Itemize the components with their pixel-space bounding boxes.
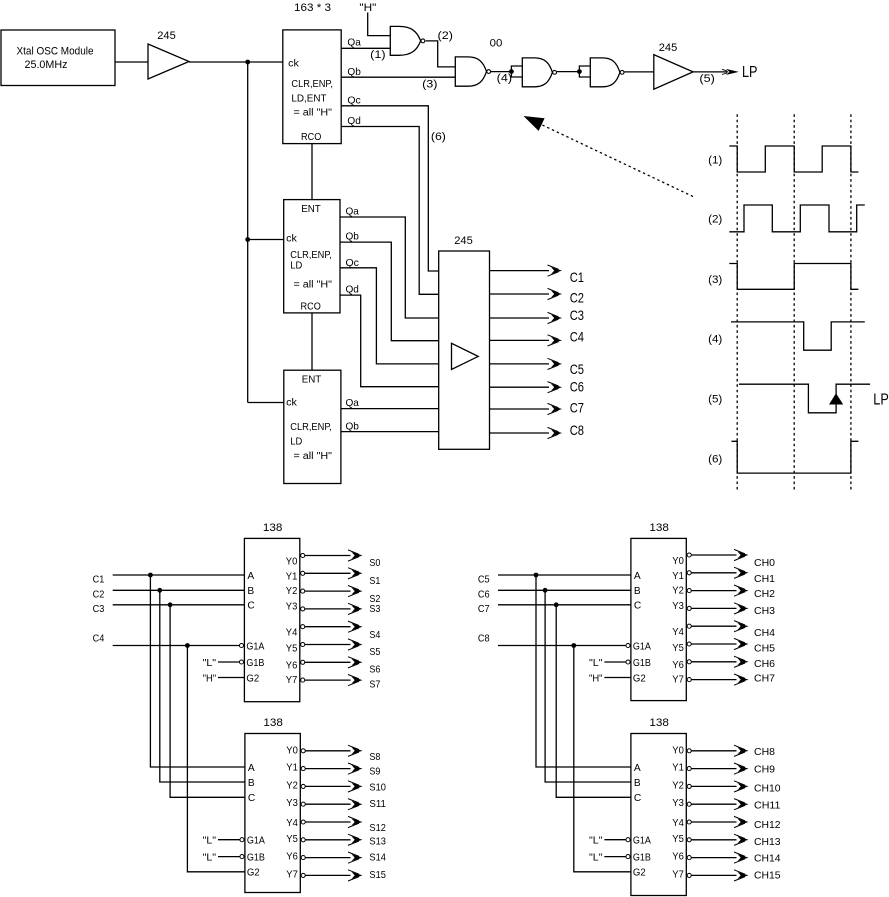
svg-text:CLR,ENP,: CLR,ENP, [291,79,333,90]
wire U6 output C7 [490,408,550,410]
wire C3 vertical to lower decoder [170,605,245,798]
svg-text:S13: S13 [369,836,386,847]
wire BR Y1 [692,768,737,770]
svg-text:A: A [247,571,254,582]
decoder TL input G1A [239,643,243,647]
wire BL Y0 [306,750,351,752]
wire C5 vertical to lower decoder [536,575,631,767]
svg-text:(3): (3) [708,274,722,286]
wire C7 [498,604,631,606]
svg-text:B: B [634,778,641,789]
nand G1 [390,26,420,55]
svg-text:B: B [634,586,641,597]
wire trunk to counter2 ck [248,239,284,241]
oscillator module X1 [1,30,115,86]
svg-text:LD: LD [290,437,302,448]
decoder BL input G1A [240,838,244,842]
wire counter2 Qc [340,268,439,364]
wire BR Y4 [692,821,737,823]
svg-text:Y2: Y2 [286,780,298,791]
node junction net4 [509,69,514,74]
decoder BL input G1B [240,855,244,859]
svg-text:(5): (5) [708,394,722,406]
svg-text:S12: S12 [369,823,386,834]
wire C4 vertical to lower decoder [187,646,245,872]
timing grid dotted line t2 [793,114,795,492]
wire U6 output C4 [490,339,550,341]
svg-text:Y5: Y5 [286,834,298,845]
svg-text:CH0: CH0 [754,558,775,569]
svg-text:Y3: Y3 [672,798,684,809]
svg-text:Y1: Y1 [286,571,298,582]
wire C3 [113,604,245,606]
nand G4 inverter [590,58,620,87]
svg-text:"L": "L" [203,852,217,863]
wire counter1 Qc net 6 [341,106,439,271]
buffer U1 245 [148,44,189,79]
buffer U3 245 [654,55,693,90]
svg-text:A: A [634,571,641,582]
svg-text:Y5: Y5 [286,644,298,655]
svg-text:Y1: Y1 [286,763,298,774]
svg-text:C8: C8 [478,634,490,645]
wire U6 output C8 [490,432,550,434]
svg-text:"H": "H" [589,673,603,684]
svg-text:S10: S10 [369,782,386,793]
wire C8 [498,645,626,647]
wire counter1 RCO to counter2 ENT [311,144,313,200]
wire BR Y5 [692,839,737,841]
node junction G4 in [577,69,582,74]
svg-text:Y0: Y0 [672,745,684,756]
wire counter2 RCO to counter3 ENT [311,313,313,370]
wire U6 output C2 [490,293,550,295]
svg-text:Y7: Y7 [672,675,684,686]
nand G3 inverter [522,58,552,87]
decoder TR input G1B [626,660,630,664]
svg-text:Qa: Qa [347,38,361,49]
svg-text:"H": "H" [359,2,376,14]
svg-text:G1B: G1B [246,658,264,669]
wire U1 out to counter ck [189,61,283,63]
timing grid dotted line t1 [736,114,738,492]
wire C4 [113,645,240,647]
svg-text:G1A: G1A [633,836,651,847]
svg-text:S5: S5 [369,647,380,658]
svg-text:CH5: CH5 [754,644,775,655]
svg-text:S8: S8 [369,752,380,763]
svg-text:"L": "L" [589,852,603,863]
wire BR Y7 [692,874,737,876]
callout dotted arrow [536,122,693,197]
waveform 1 [729,146,858,172]
wire TR Y7 [692,679,737,681]
svg-text:G2: G2 [633,868,646,879]
svg-text:Y7: Y7 [672,869,684,880]
svg-text:LD: LD [290,261,302,272]
wire C5 [498,574,631,576]
svg-text:Y2: Y2 [672,586,684,597]
wire C2 [113,589,245,591]
buffer symbol inside U6 [452,343,479,369]
svg-text:ck: ck [286,233,297,244]
wire counter1 Qd [341,127,439,295]
svg-text:Y0: Y0 [286,745,298,756]
wire TL Y2 [305,590,351,592]
svg-text:C6: C6 [570,379,584,395]
svg-text:C3: C3 [570,307,584,323]
svg-text:Qb: Qb [346,232,360,243]
svg-text:ck: ck [286,397,297,408]
wire counter1 Qb to gate [341,76,455,78]
svg-text:C2: C2 [93,589,105,600]
wire TR Y4 [692,625,737,627]
wire TR Y5 [692,643,737,645]
wire TL Y1 [305,572,351,574]
svg-text:CH13: CH13 [754,837,781,848]
svg-text:(3): (3) [422,78,438,90]
svg-text:S9: S9 [369,767,380,778]
svg-text:CH1: CH1 [754,574,775,585]
svg-text:= all "H": = all "H" [294,280,333,291]
wire ck trunk vertical [247,62,249,403]
waveform 2 [729,205,865,232]
svg-text:Y1: Y1 [672,763,684,774]
svg-text:Y2: Y2 [672,780,684,791]
wire BL Y4 [306,821,351,823]
svg-text:(6): (6) [708,454,722,466]
svg-text:C1: C1 [570,269,584,285]
svg-text:"L": "L" [203,658,217,669]
svg-text:RCO: RCO [301,132,322,143]
wire G4 out to buffer [624,71,654,73]
svg-text:B: B [247,586,254,597]
wire TR Y2 [692,590,737,592]
svg-text:Y4: Y4 [286,628,298,639]
svg-text:Qc: Qc [346,258,359,269]
wire U3 out LP [693,71,728,73]
svg-text:CH14: CH14 [754,854,781,865]
svg-text:CH15: CH15 [754,870,781,881]
svg-text:138: 138 [649,717,669,729]
svg-text:245: 245 [659,42,678,54]
wire TL Y4 [305,626,351,628]
svg-text:(2): (2) [438,30,454,42]
svg-text:S7: S7 [369,680,380,691]
svg-text:G2: G2 [247,868,260,879]
svg-text:C5: C5 [570,361,584,377]
svg-text:CH11: CH11 [754,801,781,812]
svg-text:C8: C8 [570,422,584,438]
decoder BR input G1B [626,855,630,859]
svg-text:"H": "H" [203,673,217,684]
wire G2 out net 4 [491,71,511,73]
wire C7 vertical to lower decoder [556,605,631,798]
marker LP edge [829,393,843,404]
svg-text:Y3: Y3 [672,601,684,612]
svg-text:00: 00 [490,37,503,49]
waveform 5 [739,384,870,413]
svg-text:Y5: Y5 [672,834,684,845]
wire TR Y1 [692,572,737,574]
timing waveforms [729,146,889,473]
svg-text:S15: S15 [369,870,386,881]
wire TL Y3 [305,608,351,610]
wire BL Y6 [306,857,351,859]
svg-text:CH10: CH10 [754,783,781,794]
svg-text:Y6: Y6 [672,852,684,863]
svg-text:Qc: Qc [347,96,360,107]
svg-text:RCO: RCO [301,302,322,313]
svg-text:Y3: Y3 [286,601,298,612]
svg-text:(2): (2) [708,214,722,226]
svg-text:Y6: Y6 [286,852,298,863]
wire trunk to counter3 ck [248,402,284,404]
svg-text:G1A: G1A [247,836,265,847]
svg-text:C3: C3 [93,604,105,615]
svg-text:138: 138 [263,717,283,729]
svg-text:CH4: CH4 [754,628,775,639]
svg-text:Y4: Y4 [286,818,298,829]
svg-text:G1B: G1B [247,852,265,863]
waveform 6 [732,441,859,473]
node C1 junction [148,573,153,578]
svg-text:Y3: Y3 [286,798,298,809]
svg-text:Qd: Qd [346,285,360,296]
svg-text:C1: C1 [93,574,105,585]
svg-text:ENT: ENT [302,375,322,386]
svg-text:C7: C7 [570,400,584,416]
svg-text:Y7: Y7 [286,675,298,686]
svg-text:(1): (1) [708,154,722,166]
wire C8 vertical to lower decoder [574,646,631,872]
wire C1 [113,574,245,576]
wire BR Y2 [692,785,737,787]
svg-text:C: C [634,793,641,804]
svg-text:S11: S11 [369,799,386,810]
wire H to gate G1 [368,13,391,36]
wire G1 out net 2 [426,41,456,67]
wire counter3 Qb [341,431,439,433]
wire TR Y0 [692,554,737,556]
svg-text:G1B: G1B [633,852,651,863]
node ck junction counter2 [245,237,250,242]
wire TL Y7 [305,679,351,681]
svg-text:CH2: CH2 [754,589,775,600]
svg-text:(5): (5) [699,73,715,85]
svg-text:G1B: G1B [633,658,651,669]
waveform 4 [731,322,865,350]
wire C2 vertical to lower decoder [160,590,245,782]
svg-text:(4): (4) [497,72,513,84]
svg-text:Qa: Qa [346,207,360,218]
decoder BR input G1A [626,838,630,842]
svg-text:C: C [247,601,254,612]
wire counter2 Qb [340,242,439,341]
decoder TL input G1B [239,660,243,664]
svg-text:245: 245 [157,30,176,42]
node C6 junction [543,588,548,593]
wire BL Y7 [306,874,351,876]
wire BR Y0 [692,750,737,752]
svg-text:Y2: Y2 [286,586,298,597]
svg-text:S6: S6 [369,664,380,675]
svg-text:C4: C4 [93,634,105,645]
svg-text:C7: C7 [478,604,490,615]
svg-text:C6: C6 [478,589,490,600]
wire G4 tied inputs [579,66,590,77]
wire counter2 Qd [340,295,439,387]
svg-text:Xtal OSC Module: Xtal OSC Module [17,46,94,58]
wire C6 vertical to lower decoder [545,590,631,782]
svg-text:Y0: Y0 [286,557,298,568]
svg-text:CH12: CH12 [754,820,781,831]
wire BL Y2 [306,785,351,787]
svg-text:138: 138 [649,522,669,534]
counter U5 163 [284,370,341,483]
wire counter3 Qa [341,408,439,410]
wire U6 output C3 [490,317,550,319]
svg-text:Qb: Qb [346,422,360,433]
timing grid dotted line t3 [850,114,852,492]
svg-text:CH7: CH7 [754,674,775,685]
svg-text:CLR,ENP,: CLR,ENP, [290,250,332,261]
node C8 junction [571,643,576,648]
svg-text:245: 245 [454,235,473,247]
wire TL Y0 [305,555,351,557]
counter U4 163 [284,200,340,313]
node C7 junction [554,602,559,607]
svg-text:(6): (6) [431,131,446,143]
svg-text:Y4: Y4 [672,627,684,638]
svg-text:= all "H": = all "H" [294,108,333,119]
wire U6 output C6 [490,386,550,388]
svg-text:LP: LP [873,392,889,409]
wire BL Y5 [306,839,351,841]
svg-text:CH3: CH3 [754,606,775,617]
svg-text:C5: C5 [478,574,490,585]
wire X1 to buffer U1 [115,61,148,63]
svg-text:Y1: Y1 [672,571,684,582]
wire counter1 Qa [341,47,390,49]
svg-text:LP: LP [742,64,758,81]
wire BR Y3 [692,803,737,805]
svg-text:G2: G2 [633,673,646,684]
wire G3 out [557,71,580,73]
node C2 junction [157,588,162,593]
svg-text:C: C [634,601,641,612]
svg-text:Y6: Y6 [286,660,298,671]
wire BL Y1 [306,768,351,770]
svg-text:Y0: Y0 [672,556,684,567]
decoder TR 138 [631,538,686,700]
nand G2 [455,57,486,86]
wire TR Y3 [692,607,737,609]
svg-text:S3: S3 [369,604,380,615]
wire C1 vertical to lower decoder [150,575,245,767]
svg-text:C: C [248,793,255,804]
svg-text:S1: S1 [369,576,380,587]
svg-text:ENT: ENT [301,204,321,215]
buffer U6 245 [439,251,490,449]
svg-text:CH6: CH6 [754,659,775,670]
wire BL Y3 [306,803,351,805]
svg-text:S14: S14 [369,853,386,864]
wire U6 output C5 [490,363,550,365]
wire C6 [498,589,631,591]
decoder BR 138 [631,734,686,896]
svg-text:C4: C4 [570,328,584,344]
svg-text:C2: C2 [570,290,584,306]
node C5 junction [534,573,539,578]
decoder BL 138 [245,734,300,893]
svg-text:A: A [248,763,255,774]
svg-text:Qb: Qb [347,67,361,78]
waveform 3 [729,264,858,290]
svg-text:Y5: Y5 [672,643,684,654]
wire TL Y5 [305,644,351,646]
counter U2 163 [283,30,341,144]
svg-text:Y4: Y4 [672,818,684,829]
svg-text:B: B [248,778,255,789]
svg-text:Qa: Qa [346,398,360,409]
svg-text:(1): (1) [370,49,386,61]
svg-text:138: 138 [263,522,283,534]
svg-text:S4: S4 [369,630,380,641]
wire G3 tied inputs [511,66,522,77]
svg-text:25.0MHz: 25.0MHz [25,59,68,71]
wire TR Y6 [692,661,737,663]
node ck trunk junction [245,60,250,65]
svg-text:G2: G2 [246,673,259,684]
svg-text:Y6: Y6 [672,660,684,671]
svg-text:Qd: Qd [347,116,361,127]
svg-text:"L": "L" [589,658,603,669]
svg-text:"L": "L" [203,836,217,847]
svg-text:LD,ENT: LD,ENT [291,94,326,105]
svg-text:CLR,ENP,: CLR,ENP, [290,422,332,433]
node C3 junction [168,602,173,607]
wire BR Y6 [692,857,737,859]
svg-text:CH9: CH9 [754,765,775,776]
svg-text:Y7: Y7 [286,869,298,880]
svg-text:G1A: G1A [246,641,264,652]
svg-text:"L": "L" [589,836,603,847]
svg-text:(4): (4) [708,334,722,346]
svg-text:163 * 3: 163 * 3 [294,2,331,14]
decoder TL 138 [244,538,299,701]
wire U6 output C1 [490,270,550,272]
svg-text:S0: S0 [369,558,380,569]
wire TL Y6 [305,661,351,663]
svg-text:CH8: CH8 [754,747,775,758]
svg-text:G1A: G1A [633,641,651,652]
svg-text:= all "H": = all "H" [294,451,333,462]
wire counter2 Qa [340,217,439,318]
svg-text:A: A [634,763,641,774]
decoder TR input G1A [626,643,630,647]
node C4 junction [185,643,190,648]
svg-text:ck: ck [288,59,299,70]
